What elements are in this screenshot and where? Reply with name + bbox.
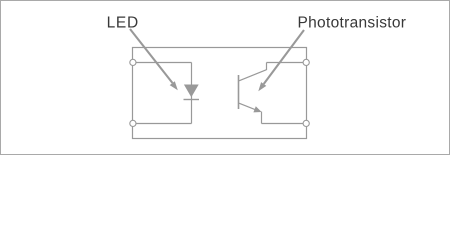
LED D1 triangle [184, 85, 199, 98]
wire: LED cathode bottom [133, 123, 192, 125]
terminal pin bottom-left [130, 120, 136, 126]
label LED [107, 14, 139, 31]
pointer arrow from LED label [130, 29, 173, 83]
wire: emitter diagonal [239, 103, 256, 110]
wire: emitter vertical [261, 112, 263, 124]
wire: LED vertical branch [191, 63, 193, 124]
terminal pin bottom-right [303, 120, 309, 126]
page border frame [1, 1, 450, 155]
pointer arrow from Phototransistor label [264, 30, 304, 84]
optocoupler package outline [133, 48, 307, 139]
wire: collector diagonal [239, 70, 267, 81]
emitter arrowhead [253, 106, 261, 112]
terminal pin top-right [303, 59, 309, 65]
svg-text:Phototransistor: Phototransistor [298, 14, 407, 31]
svg-text:LED: LED [107, 14, 139, 31]
label Phototransistor [298, 14, 407, 31]
wire: LED anode top [133, 62, 192, 64]
terminal pin top-left [130, 59, 136, 65]
wire: emitter horizontal to terminal [262, 123, 307, 125]
wire: collector horizontal to terminal [267, 62, 307, 64]
LED D1 cathode bar [184, 99, 200, 101]
phototransistor Q1 base bar [238, 75, 240, 109]
wire: collector vertical [266, 63, 268, 71]
